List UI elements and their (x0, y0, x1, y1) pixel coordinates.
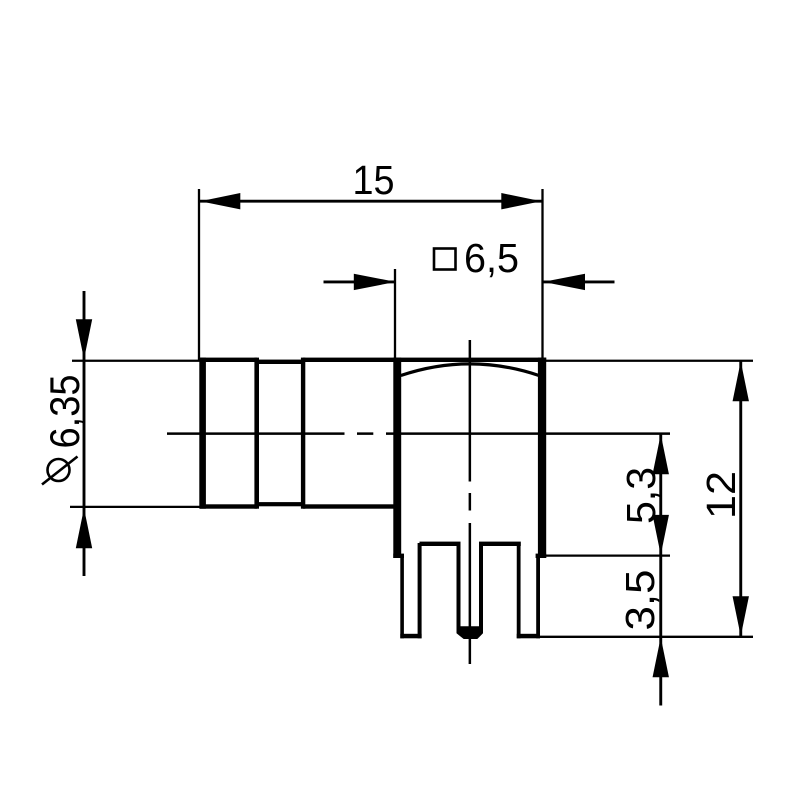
svg-text:5,3: 5,3 (618, 467, 664, 524)
svg-text:3,5: 3,5 (617, 570, 663, 631)
svg-text:15: 15 (353, 157, 395, 203)
svg-text:12: 12 (698, 471, 744, 519)
svg-text:6,35: 6,35 (41, 375, 88, 449)
svg-text:6,5: 6,5 (464, 235, 519, 281)
